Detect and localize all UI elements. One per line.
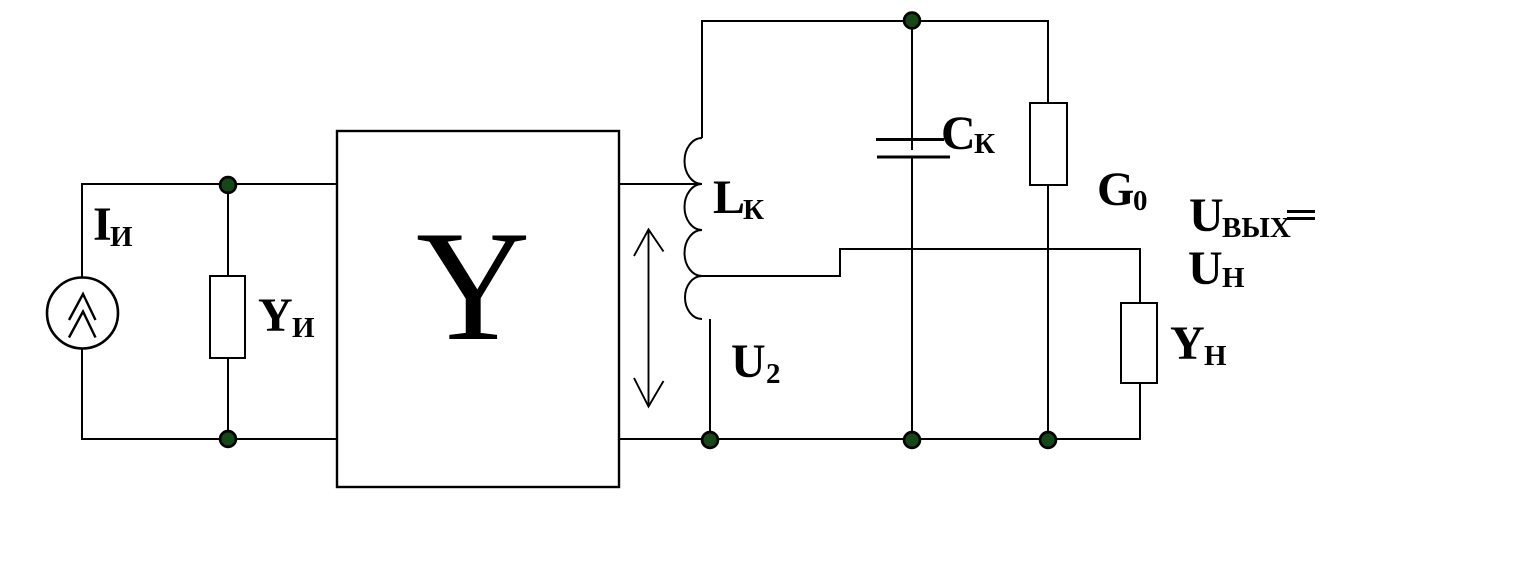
svg-text:И: И: [292, 312, 315, 344]
wire: capacitor top lead: [911, 20, 913, 150]
node: top junction: [904, 13, 920, 29]
svg-text:U: U: [1189, 189, 1224, 242]
resistor G0: [1030, 103, 1067, 185]
svg-text:Н: Н: [1204, 340, 1227, 372]
current source arrow chevron lower: [69, 312, 96, 338]
svg-text:U: U: [1188, 242, 1223, 295]
resistor Y_Н: [1121, 303, 1157, 383]
node: bottom junction at coil: [702, 432, 718, 448]
svg-text:К: К: [743, 194, 764, 226]
wire: coil top lead: [701, 20, 703, 138]
svg-text:ВЫХ: ВЫХ: [1222, 212, 1291, 244]
svg-text:L: L: [713, 171, 745, 224]
inductor L_К coil: [685, 138, 703, 319]
capacitor C_К top plate: [876, 138, 944, 141]
wire: tap rail to load: [839, 248, 1141, 250]
four-terminal network box Y: [337, 131, 619, 487]
svg-text:К: К: [974, 128, 995, 160]
resistor Y_И: [210, 276, 245, 358]
wire: box right top stub to coil tap: [619, 183, 700, 185]
current source I_И circle: [47, 278, 118, 349]
svg-text:2: 2: [766, 358, 781, 390]
wire: coil bottom lead: [709, 319, 711, 440]
node: top-left junction: [220, 177, 236, 193]
wire: top-left rail: [82, 183, 337, 185]
svg-text:Y: Y: [1170, 317, 1205, 370]
capacitor C_К bottom plate: [877, 156, 950, 159]
wire: G0 top lead: [1047, 20, 1049, 103]
svg-text:I: I: [93, 198, 112, 251]
svg-text:0: 0: [1133, 185, 1148, 217]
node: bottom-left junction: [220, 431, 236, 447]
wire: Y_И top lead: [227, 184, 229, 276]
double arrow U2 indicator: [634, 230, 664, 407]
svg-text:U: U: [731, 335, 766, 388]
node: bottom junction at capacitor: [904, 432, 920, 448]
wire: capacitor bottom lead: [911, 157, 913, 440]
svg-text:Y: Y: [258, 289, 293, 342]
svg-text:G: G: [1097, 163, 1134, 216]
wire: coil tap horizontal: [702, 275, 840, 277]
wire: G0 bottom lead: [1047, 185, 1049, 440]
wire: bottom-right rail: [618, 438, 1141, 440]
wire: top rail: [702, 20, 1049, 22]
wire: tap step vertical: [839, 249, 841, 277]
svg-text:Y: Y: [416, 199, 530, 374]
wire: Y_И bottom lead: [227, 358, 229, 439]
wire: source bottom lead: [81, 348, 83, 440]
wire: Y_Н bottom lead: [1139, 383, 1141, 440]
wire: Y_Н top lead: [1139, 248, 1141, 303]
wire: source top lead: [81, 183, 83, 278]
node: bottom junction at G0: [1040, 432, 1056, 448]
wire: bottom-left rail: [82, 438, 338, 440]
svg-text:И: И: [110, 221, 133, 253]
svg-text:Н: Н: [1222, 262, 1245, 294]
svg-text:C: C: [941, 107, 976, 160]
current source arrow chevron upper: [69, 294, 96, 320]
